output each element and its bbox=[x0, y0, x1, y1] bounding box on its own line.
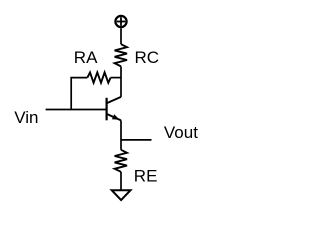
resistor RE bbox=[115, 150, 127, 172]
transistor Q1 emitter lead bbox=[107, 114, 121, 121]
svg-text:RA: RA bbox=[74, 48, 98, 67]
wire emitter down to RE bbox=[120, 120, 122, 149]
svg-text:Vout: Vout bbox=[164, 123, 198, 142]
transistor Q1 collector lead bbox=[107, 97, 121, 103]
transistor Q1 base bar bbox=[105, 98, 107, 121]
svg-text:RC: RC bbox=[135, 48, 160, 67]
ground bbox=[112, 190, 131, 200]
resistor RC bbox=[115, 44, 127, 66]
wire V+ to RC bbox=[120, 28, 122, 44]
wire RA to collector node bbox=[111, 77, 121, 79]
wire Vout tap bbox=[121, 139, 152, 141]
wire RE to ground bbox=[120, 172, 122, 190]
wire base (Vin to transistor) bbox=[46, 109, 107, 111]
svg-text:Vin: Vin bbox=[14, 108, 38, 127]
wire RC to collector node bbox=[120, 66, 122, 97]
svg-text:RE: RE bbox=[134, 166, 158, 185]
transistor Q1 emitter arrow bbox=[112, 114, 120, 120]
resistor RA bbox=[87, 72, 110, 82]
power supply V+ bbox=[115, 16, 126, 27]
wire RA loop: left vertical + horizontal runs bbox=[71, 78, 87, 110]
